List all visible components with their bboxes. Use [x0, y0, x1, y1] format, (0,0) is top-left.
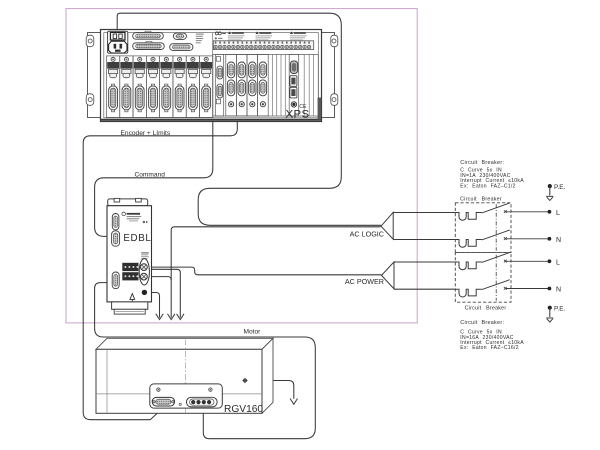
- svg-text:P.E.: P.E.: [554, 184, 565, 191]
- svg-text:Circuit Breaker: Circuit Breaker: [465, 306, 507, 312]
- motor connector DB15 encoder: [152, 397, 174, 406]
- motor ground terminal: [242, 378, 247, 383]
- svg-text:L: L: [556, 259, 560, 266]
- wire AC LOGIC L to breaker CB1: [393, 212, 455, 214]
- XPS axis slot 4: [146, 56, 159, 118]
- EDBL top mounting plate: [108, 198, 148, 205]
- wire AC POWER L to breaker CB2: [394, 261, 455, 263]
- svg-text:N: N: [556, 237, 561, 244]
- XPS axis slot 6: [173, 56, 186, 118]
- svg-text:AC POWER: AC POWER: [345, 277, 384, 286]
- circuit breaker CB1 box: [455, 203, 511, 253]
- mechanical link CB2: [495, 255, 497, 301]
- EDBL body: [107, 206, 152, 302]
- cable fan-out AC LOGIC: [381, 212, 393, 239]
- ground P.E. top: [546, 196, 553, 200]
- node L1: [548, 210, 552, 214]
- XPS axis slot 7: [186, 56, 199, 118]
- svg-text:XPS: XPS: [286, 109, 310, 121]
- controller XPS: [86, 30, 338, 122]
- XPS I/O card (narrow): [215, 54, 223, 116]
- note circuit breaker CB2 rating: [460, 320, 524, 351]
- XPS terminal strip: [213, 41, 313, 50]
- motor connector plate: [150, 384, 223, 408]
- wire AC POWER N to breaker CB2: [394, 288, 455, 290]
- XPS axis slot 2: [120, 56, 133, 118]
- wire W10 motor ground terminal to ground: [247, 381, 294, 399]
- svg-text:AC LOGIC: AC LOGIC: [350, 229, 384, 238]
- svg-text:P.E.: P.E.: [554, 305, 565, 312]
- mechanical link CB1: [495, 204, 497, 251]
- svg-text:EDBL: EDBL: [123, 233, 151, 244]
- XPS caution label 1: [228, 31, 245, 40]
- ground: [177, 314, 184, 320]
- node L2: [548, 259, 552, 263]
- breaker CB2 pole L: [455, 253, 547, 270]
- svg-text:Command: Command: [135, 172, 166, 179]
- XPS brand logo: [215, 32, 226, 39]
- node P.E. top: [548, 184, 552, 188]
- svg-text:Ex: Eaton FAZ–C1/2: Ex: Eaton FAZ–C1/2: [460, 184, 515, 190]
- wire W7 Command cable XPS to EDBL: [95, 118, 213, 237]
- svg-text:RGV160: RGV160: [224, 404, 263, 415]
- stage RGV160 motor: [96, 338, 273, 415]
- wire W8 Encoder + Limits cable XPS to motor: [83, 118, 237, 420]
- XPS CPU card U1: [289, 54, 299, 116]
- note circuit breaker CB1 rating: [460, 160, 524, 190]
- EDBL terminal block TB1: [122, 263, 138, 271]
- motor top face: [96, 338, 273, 349]
- XPS left mounting ear: [86, 33, 100, 118]
- XPS caution label 2: [256, 31, 273, 40]
- ground: [156, 314, 163, 320]
- wire W2 protective-earth conductor of AC LOGIC cable: [171, 227, 380, 318]
- motor connector power (4-pin): [187, 397, 218, 407]
- svg-text:Circuit Breaker:: Circuit Breaker:: [460, 320, 504, 326]
- XPS axis slot 5: [160, 56, 173, 118]
- EDBL connector DB25 command input: [112, 231, 120, 246]
- EDBL AC input connector: [139, 259, 149, 285]
- XPS connector J2 (DB9): [173, 33, 186, 39]
- node N2: [548, 287, 552, 291]
- XPS driver card 3: [247, 55, 258, 116]
- svg-text:Encoder + LImits: Encoder + LImits: [121, 130, 171, 137]
- XPS right mounting ear: [322, 33, 338, 118]
- XPS power entry module: [108, 31, 128, 53]
- ground P.E. bottom: [546, 318, 553, 322]
- EDBL warning text block: [141, 252, 149, 259]
- XPS driver card 1 (2x DB9): [226, 55, 237, 116]
- XPS rack chassis: [101, 30, 322, 122]
- motor plate screw: [179, 403, 181, 405]
- driver EDBL: [107, 198, 152, 314]
- EDBL bottom mounting plate: [112, 302, 148, 314]
- wire AC LOGIC N to breaker CB1: [393, 239, 455, 241]
- svg-text:L: L: [556, 210, 560, 217]
- XPS axis slot 3: [133, 56, 146, 118]
- EDBL connector DB15 motor output: [112, 272, 119, 289]
- wire W9 Motor cable EDBL to RGV160: [95, 283, 316, 439]
- wire W6 EDBL ground stud to ground: [147, 293, 159, 318]
- EDBL terminal block TB2: [122, 272, 138, 280]
- node N1: [548, 237, 552, 241]
- XPS caution label 3: [290, 31, 307, 40]
- EDBL connector DB9: [112, 214, 119, 230]
- wire W5 EDBL terminal to ground: [140, 269, 180, 317]
- wire P.E. bottom to earth: [549, 308, 551, 317]
- breaker CB1 pole L: [455, 203, 547, 220]
- breaker CB1 pole N: [455, 230, 547, 247]
- EDBL brand logo: [122, 212, 148, 223]
- node P.E. bottom: [548, 306, 552, 310]
- circuit breaker CB2 box: [455, 253, 511, 303]
- ground: [168, 314, 175, 320]
- XPS model text block: [196, 34, 204, 44]
- svg-text:Ex: Eaton FAZ–C16/2: Ex: Eaton FAZ–C16/2: [460, 345, 519, 351]
- XPS right section frame: [213, 54, 319, 116]
- XPS driver card 2: [236, 55, 247, 116]
- frame border (page boundary): [66, 9, 417, 323]
- XPS axis slot 1 (HD15 + DB25): [106, 56, 119, 118]
- cable fan-out AC POWER: [382, 262, 395, 289]
- wire P.E. top to earth: [549, 186, 551, 195]
- wire W1 XPS AC inlet to AC LOGIC cable: [117, 13, 381, 225]
- svg-text:Circuit Breaker: Circuit Breaker: [460, 196, 502, 202]
- XPS connector J4 (DB25): [170, 44, 193, 51]
- svg-text:Motor: Motor: [244, 329, 262, 336]
- breaker CB2 pole N: [455, 280, 547, 297]
- XPS axis slot 8: [200, 56, 213, 118]
- EDBL chassis ground symbol: [130, 294, 135, 302]
- wire W4 EDBL AC connector pin 2 to ground: [148, 277, 171, 280]
- svg-text:Circuit Breaker:: Circuit Breaker:: [460, 160, 504, 166]
- motor centerline: [185, 340, 187, 414]
- XPS connector J1 (DB37): [133, 31, 164, 39]
- EDBL ground stud: [142, 290, 147, 295]
- motor right face: [262, 338, 273, 413]
- motor front face: [96, 349, 262, 413]
- XPS connector J3 (DB37): [133, 41, 165, 49]
- XPS empty slot covers: [272, 54, 313, 116]
- XPS driver card 4: [258, 55, 269, 116]
- svg-text:N: N: [556, 287, 561, 294]
- wire W3 EDBL AC input to AC POWER cable: [148, 267, 381, 275]
- ground: [290, 399, 297, 405]
